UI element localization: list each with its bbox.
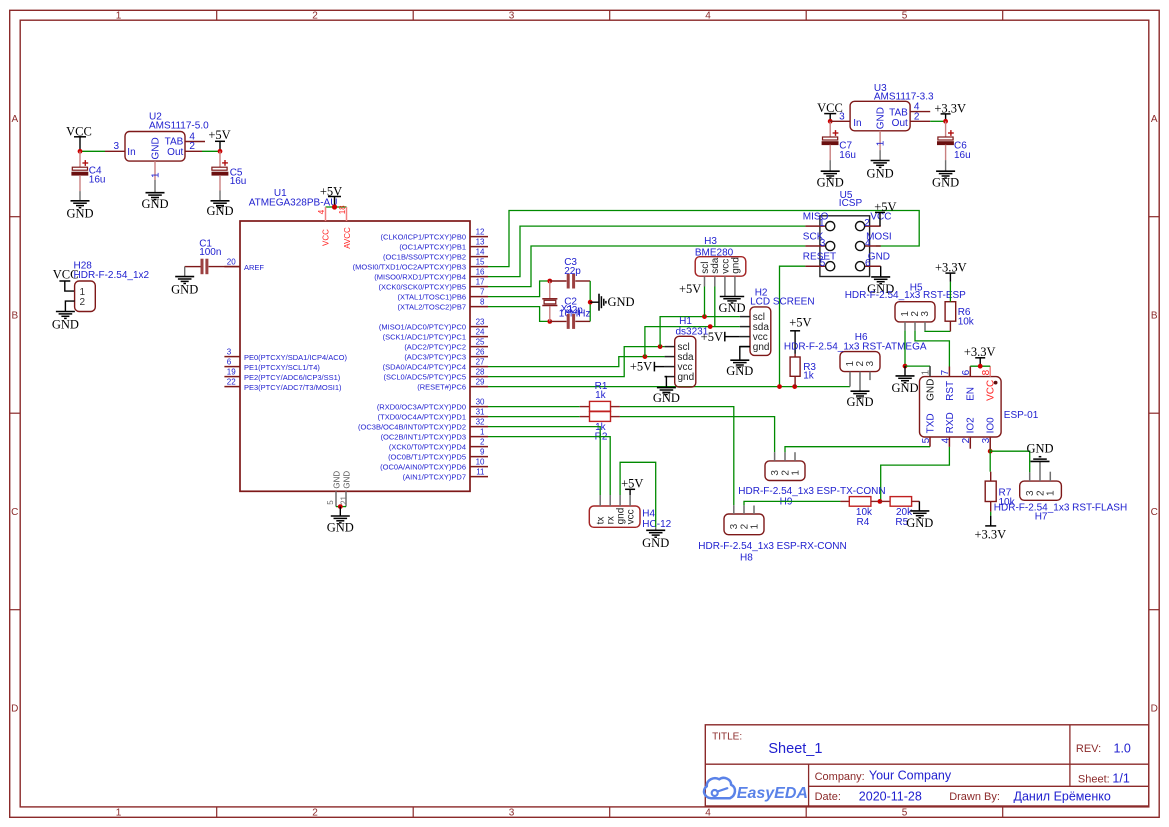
svg-text:32: 32 (476, 418, 485, 427)
svg-text:+3.3V: +3.3V (964, 345, 996, 359)
svg-text:AMS1117-3.3: AMS1117-3.3 (874, 92, 934, 103)
resistor R3 1k (794, 354, 796, 357)
svg-text:C: C (11, 507, 18, 518)
svg-text:6: 6 (961, 369, 972, 375)
svg-text:BME280: BME280 (695, 247, 734, 258)
pin 3 (H7) (1029, 472, 1031, 481)
svg-text:(OC1B/SS0/PTCXY)PB2: (OC1B/SS0/PTCXY)PB2 (383, 253, 466, 262)
svg-text:(OC2B/INT1/PTCXY)PD3: (OC2B/INT1/PTCXY)PD3 (381, 433, 466, 442)
module H4 HC-12 body (589, 506, 640, 527)
node junction U1 ground (338, 504, 343, 509)
svg-text:+5V: +5V (621, 476, 643, 490)
svg-text:(ADC2/PTCY)PC2: (ADC2/PTCY)PC2 (404, 343, 466, 352)
svg-text:GND: GND (906, 516, 933, 530)
svg-text:2: 2 (80, 297, 86, 308)
svg-text:H3: H3 (704, 236, 717, 247)
svg-text:Out: Out (167, 147, 183, 158)
svg-text:6: 6 (865, 258, 871, 269)
pin 7 (ESP.RST) (948, 367, 950, 377)
svg-text:3: 3 (509, 11, 515, 22)
svg-text:19: 19 (227, 368, 236, 377)
svg-text:GND: GND (171, 282, 198, 296)
pin sda (H1) (665, 356, 675, 358)
wire RESET# (PC6) long line (488, 386, 850, 388)
pin 20 (U1.AREF) (224, 266, 240, 268)
svg-text:1: 1 (151, 172, 162, 178)
ground GND (U3 pin1) (879, 150, 881, 160)
svg-text:VCC: VCC (322, 229, 331, 246)
svg-text:1: 1 (1046, 490, 1057, 496)
svg-text:Sheet_1: Sheet_1 (768, 741, 822, 757)
svg-text:Out: Out (892, 118, 908, 129)
svg-text:25: 25 (476, 338, 485, 347)
pin 32 (U1.PD2) (470, 426, 488, 428)
resistor R6 10k (949, 321, 951, 331)
pin 27 (U1.PC4) (470, 366, 488, 368)
pin 4 (ESP.RXD) (948, 437, 950, 447)
ground GND (C4) (79, 191, 81, 201)
wire SCK (PB5 to ICSP pin3) (488, 246, 805, 287)
svg-text:A: A (11, 114, 18, 125)
wire RESET (ICSP pin5 riser) (780, 266, 806, 386)
pin 3 (ESP.IO0) (989, 437, 991, 449)
svg-text:12: 12 (476, 228, 485, 237)
svg-text:16u: 16u (230, 176, 247, 187)
node junction VCC/C7 (828, 119, 833, 124)
svg-text:7: 7 (940, 369, 951, 375)
svg-text:+5V: +5V (630, 360, 652, 374)
pin 2 (U1.PD4) (470, 446, 488, 448)
svg-text:3: 3 (509, 807, 515, 818)
wire VCC to U2.In (80, 150, 105, 152)
node junction RESET at R3 (792, 384, 797, 389)
connector H28 HDR-F-2.54_1x2 (75, 281, 96, 312)
node junction H5/ESP ground (903, 364, 908, 369)
wire RXD0 (PD0 to R1) (488, 406, 580, 408)
svg-text:HDR-F-2.54_1x2: HDR-F-2.54_1x2 (74, 270, 150, 281)
pin 16 (U1.PB4) (470, 276, 488, 278)
svg-text:21: 21 (339, 495, 348, 504)
wire BME280 sda down (714, 287, 716, 327)
frame column ticks (216, 10, 218, 20)
svg-text:GND: GND (876, 107, 887, 129)
svg-text:10k: 10k (958, 317, 975, 328)
op-amp U2 regulator AMS1117-5.0 (125, 132, 185, 162)
ground GND (C1) (184, 267, 186, 277)
pin 2 (H6) (859, 372, 861, 391)
svg-text:(RESET#)PC6: (RESET#)PC6 (417, 383, 466, 392)
svg-text:GND: GND (52, 317, 79, 331)
pin 22 (U1.PE3) (224, 386, 240, 388)
wire H5 pin1 to GND junction (904, 331, 906, 367)
pin 3 (H8) (733, 505, 735, 514)
wire H2 gnd to ground (740, 347, 750, 361)
ground GND (ICSP pin6) (880, 266, 882, 277)
node junction divider (878, 499, 883, 504)
svg-text:(SCK1/ADC1/PTCY)PC1: (SCK1/ADC1/PTCY)PC1 (383, 333, 466, 342)
wire SDA riser to BME280/LCD (645, 327, 740, 357)
ground GND (H1) (657, 387, 676, 389)
svg-text:ATMEGA328PB-AU: ATMEGA328PB-AU (249, 198, 338, 209)
pin 31 (U1.PD1) (470, 416, 488, 418)
wire IO0 to R7 (989, 449, 991, 472)
svg-text:HDR-F-2.54_1x3 RST-ESP: HDR-F-2.54_1x3 RST-ESP (845, 290, 966, 301)
svg-text:31: 31 (476, 408, 485, 417)
svg-text:3: 3 (839, 112, 845, 123)
title block dividers (705, 763, 1149, 765)
module ESP-01 body (920, 377, 1002, 437)
pin 1 (H7) (1049, 472, 1051, 481)
wire BME280 scl down (704, 287, 706, 317)
svg-text:(XCK0/T0/PTCXY)PD4: (XCK0/T0/PTCXY)PD4 (389, 443, 466, 452)
svg-text:H4: H4 (642, 509, 655, 520)
svg-text:Drawn By:: Drawn By: (949, 791, 1000, 803)
svg-text:HC-12: HC-12 (642, 519, 671, 530)
svg-text:1: 1 (790, 470, 801, 476)
svg-text:2: 2 (914, 112, 920, 123)
svg-text:PE3(PTCY/ADC7/T3/MOSI1): PE3(PTCY/ADC7/T3/MOSI1) (244, 383, 342, 392)
ground GND (C6) (945, 160, 947, 171)
wire H9 pin2 to ESP TXD (785, 447, 930, 453)
wire junction to ESP GND pin (905, 365, 930, 367)
node junction crystal ground (588, 300, 593, 305)
svg-text:PE0(PTCXY/SDA1/ICP4/ACO): PE0(PTCXY/SDA1/ICP4/ACO) (244, 353, 347, 362)
svg-text:GND: GND (925, 379, 936, 401)
pin sda (BME280) (714, 276, 716, 286)
connector H9 HDR-F-2.54_1x3 ESP-TX-CONN body (765, 461, 805, 481)
svg-text:1k: 1k (595, 390, 607, 401)
svg-text:AVCC: AVCC (343, 227, 352, 249)
svg-text:(MISO0/RXD1/PTCXY)PB4: (MISO0/RXD1/PTCXY)PB4 (374, 273, 466, 282)
svg-text:H1: H1 (679, 316, 692, 327)
pin 8 (U1.PB7) (470, 306, 488, 308)
pin 3 (H9) (774, 452, 776, 461)
wire H1 gnd to ground (665, 377, 667, 388)
ground GND (H28) (56, 311, 75, 313)
svg-text:GND: GND (726, 364, 753, 378)
svg-text:HDR-F-2.54_1x3 RST-FLASH: HDR-F-2.54_1x3 RST-FLASH (994, 503, 1127, 514)
wire H5 pin3 to R6 (925, 330, 950, 333)
IC U1 ATMEGA328PB-AU body (240, 221, 470, 491)
wire crystal caps right side (589, 281, 591, 321)
node junction SDA at BME280 (708, 324, 713, 329)
svg-text:TAB: TAB (165, 137, 184, 148)
svg-text:B: B (11, 311, 18, 322)
svg-text:(XTAL2/TOSC2)PB7: (XTAL2/TOSC2)PB7 (398, 303, 467, 312)
pin gnd (H2) (740, 346, 750, 348)
pin 1 (H9) (794, 452, 796, 461)
svg-text:3: 3 (820, 238, 826, 249)
svg-text:28: 28 (476, 368, 485, 377)
svg-text:GND: GND (1026, 442, 1053, 456)
svg-text:8: 8 (480, 298, 485, 307)
svg-text:EN: EN (966, 387, 977, 401)
svg-text:AMS1117-5.0: AMS1117-5.0 (149, 121, 209, 132)
svg-text:A: A (1151, 114, 1158, 125)
wire SCL (PC5 to bus) (488, 347, 665, 377)
svg-text:IO2: IO2 (966, 417, 977, 434)
capacitor C7 (829, 121, 831, 137)
svg-text:22p: 22p (564, 266, 581, 277)
svg-text:3: 3 (981, 437, 992, 443)
svg-text:3: 3 (920, 311, 931, 317)
svg-text:(SDA0/ADC4/PTCY)PC4: (SDA0/ADC4/PTCY)PC4 (383, 363, 466, 372)
node junction ESP IO0 (988, 449, 993, 454)
pin vcc (H2) (740, 336, 750, 338)
wire PD3 to HC-12 rx (488, 437, 610, 495)
pin 23 (U1.PC0) (470, 326, 488, 328)
net flag +3.3V (R7, inverted) (990, 512, 992, 516)
svg-text:9: 9 (480, 448, 485, 457)
pin 2 (H8) (743, 505, 745, 514)
svg-text:1: 1 (819, 218, 825, 229)
svg-text:GND: GND (342, 471, 351, 489)
pin 2 (H7) (1039, 461, 1041, 481)
svg-text:GND: GND (608, 295, 635, 309)
svg-text:(SCL0/ADC5/PTCY)PC5: (SCL0/ADC5/PTCY)PC5 (383, 373, 466, 382)
svg-text:(OC0B/T1/PTCXY)PD5: (OC0B/T1/PTCXY)PD5 (388, 453, 466, 462)
svg-text:16u: 16u (89, 175, 106, 186)
pin 1 (ICSP.MISO) (805, 225, 825, 227)
svg-text:H9: H9 (780, 497, 793, 508)
pin 3 (U3.In) (830, 120, 850, 122)
ground GND (C7) (829, 160, 831, 171)
svg-text:GND: GND (642, 536, 669, 550)
ground GND (H2) (730, 359, 749, 361)
svg-text:PE1(PTCXY/SCL1/T4): PE1(PTCXY/SCL1/T4) (244, 363, 320, 372)
svg-text:ESP-01: ESP-01 (1004, 410, 1039, 421)
svg-text:1: 1 (116, 807, 122, 818)
svg-text:5: 5 (820, 258, 826, 269)
pin 18 (U1.AVCC) (346, 207, 348, 221)
wire R2 to H9 pin3 (620, 417, 775, 453)
svg-text:4: 4 (705, 11, 711, 22)
node junction VCC/C4 (78, 149, 83, 154)
node junction crystal bottom (547, 319, 552, 324)
node junction crystal top (547, 279, 552, 284)
pin 3 (U2.In) (105, 150, 125, 152)
wire EN/VCC to +3.3V (970, 365, 990, 367)
ground GND (BME280) (720, 296, 744, 298)
pin 1 (U2.GND) (154, 161, 156, 180)
pin 4 (ICSP.MOSI) (865, 245, 881, 247)
pin 6 (U1.PE1) (224, 366, 240, 368)
svg-text:Sheet:: Sheet: (1078, 773, 1110, 785)
wire U2.Out to +5V (202, 150, 220, 152)
pin sda (H2) (740, 326, 750, 328)
svg-text:D: D (11, 703, 18, 714)
svg-text:29: 29 (476, 378, 485, 387)
svg-text:+5V: +5V (701, 330, 723, 344)
capacitor C2 22p (550, 320, 567, 322)
pin 1 (H8) (753, 506, 755, 515)
wire H5 pin2 to ESP RST (915, 331, 949, 367)
svg-text:18: 18 (338, 205, 347, 214)
svg-text:3: 3 (770, 470, 781, 476)
pin gnd (H1) (665, 376, 675, 378)
svg-text:Данил Ерёменко: Данил Ерёменко (1014, 789, 1111, 803)
svg-text:LCD SCREEN: LCD SCREEN (750, 297, 814, 308)
svg-text:C: C (1151, 507, 1158, 518)
pin vcc (H1) (665, 366, 675, 368)
capacitor C4 (79, 151, 81, 167)
svg-text:5: 5 (902, 11, 908, 22)
pin 7 (U1.PB6) (470, 296, 488, 298)
pin 2 (ESP.IO2) (969, 437, 971, 449)
svg-text:Your Company: Your Company (869, 769, 952, 783)
wire U1 ground pins (336, 506, 346, 508)
wire VCC to H28 pin1 (65, 281, 75, 291)
svg-text:2: 2 (864, 218, 870, 229)
connector H6 HDR-F-2.54_1x3 RST-ATMEGA body (840, 352, 880, 372)
svg-text:TAB: TAB (889, 107, 908, 118)
pin 1 (H5) (904, 322, 906, 331)
pin 1 (U1.PD3) (470, 436, 488, 438)
svg-text:GND: GND (653, 391, 680, 405)
svg-text:2: 2 (480, 438, 485, 447)
svg-text:gnd: gnd (730, 257, 741, 274)
svg-text:GND: GND (868, 252, 890, 263)
svg-text:GND: GND (891, 381, 918, 395)
pin 21 (U1.GND) (345, 491, 347, 506)
svg-text:IO0: IO0 (986, 417, 997, 434)
svg-text:GND: GND (151, 137, 162, 159)
pin 30 (U1.PD0) (470, 406, 488, 408)
svg-text:3: 3 (113, 141, 119, 152)
svg-text:1/1: 1/1 (1112, 771, 1129, 785)
pin 1 (ESP.GND) (929, 366, 931, 377)
pin 3 (ICSP.SCK) (805, 245, 825, 247)
wire U3.Out to +3.3V (930, 120, 945, 122)
svg-text:H7: H7 (1035, 511, 1048, 522)
wire MOSI (PB3 to ICSP pin4) (488, 211, 919, 267)
pin 11 (U1.PD7) (470, 476, 488, 478)
svg-text:GND: GND (141, 197, 168, 211)
pin 5 (ICSP.RESET) (805, 265, 825, 267)
svg-text:MISO: MISO (803, 211, 829, 222)
svg-text:HDR-F-2.54_1x3 ESP-TX-CONN: HDR-F-2.54_1x3 ESP-TX-CONN (738, 486, 885, 497)
svg-text:3: 3 (227, 348, 232, 357)
ground GND (HC-12) (655, 527, 657, 530)
svg-text:+5V: +5V (789, 315, 811, 329)
svg-text:(TXD0/OC4A/PTCXY)PD1: (TXD0/OC4A/PTCXY)PD1 (378, 413, 466, 422)
svg-text:H8: H8 (740, 552, 753, 563)
wire +5V to VCC/AVCC pins (326, 206, 347, 208)
regulator U3 AMS1117-3.3 body (850, 101, 910, 131)
svg-text:+5V: +5V (679, 282, 701, 296)
wire TXD0 (PD1 to R2) (488, 416, 580, 418)
svg-text:RXD: RXD (945, 412, 956, 433)
svg-text:GND: GND (817, 175, 844, 189)
pin 2 (U2.Out) (185, 150, 202, 152)
svg-text:15: 15 (476, 258, 485, 267)
svg-text:7: 7 (480, 288, 485, 297)
pin 29 (U1.PC6) (470, 386, 488, 388)
wire SCL riser to BME280/LCD (660, 317, 740, 347)
pin 3 (H5) (924, 322, 926, 331)
resistor R7 10k (990, 472, 992, 481)
svg-text:GND: GND (718, 301, 745, 315)
svg-text:(MISO1/ADC0/PTCY)PC0: (MISO1/ADC0/PTCY)PC0 (379, 323, 466, 332)
svg-text:EasyEDA: EasyEDA (737, 785, 808, 802)
svg-text:24: 24 (476, 328, 485, 337)
node junction +3.3V/C6 (943, 119, 948, 124)
node junction SCL at BME280 (702, 314, 707, 319)
pin 8 (ESP.VCC) (989, 366, 991, 376)
svg-text:TXD: TXD (925, 413, 936, 433)
svg-text:23: 23 (476, 318, 485, 327)
svg-text:AREF: AREF (244, 263, 264, 272)
svg-text:(RXD0/OC3A/PTCXY)PD0: (RXD0/OC3A/PTCXY)PD0 (377, 403, 466, 412)
svg-text:R4: R4 (857, 517, 870, 528)
svg-text:1: 1 (749, 523, 760, 529)
pin 5 (ESP.TXD) (929, 437, 931, 447)
wire IO0 to H7 pin3 (990, 451, 1029, 472)
svg-text:11: 11 (476, 468, 485, 477)
svg-text:5: 5 (902, 807, 908, 818)
pin scl (H2) (740, 316, 750, 318)
wire R1 to H8 pin3 (620, 407, 734, 506)
ground GND (H5 pin1) (904, 366, 906, 376)
wire H8 pin2 to R4 (744, 501, 840, 505)
svg-text:(OC0A/AIN0/PTCXY)PD6: (OC0A/AIN0/PTCXY)PD6 (380, 463, 466, 472)
svg-text:1: 1 (876, 140, 887, 146)
svg-text:In: In (127, 147, 135, 158)
wire PD2 to HC-12 tx (488, 427, 600, 495)
svg-text:1: 1 (480, 428, 485, 437)
svg-text:+5V: +5V (208, 128, 230, 142)
svg-text:8: 8 (981, 369, 992, 375)
capacitor C5 (219, 151, 221, 167)
svg-text:(XTAL1/TOSC1)PB6: (XTAL1/TOSC1)PB6 (398, 293, 467, 302)
title block outline (705, 725, 1149, 806)
wire MISO (PB4 to ICSP pin1) (488, 226, 805, 277)
pin 25 (U1.PC2) (470, 346, 488, 348)
connector H8 HDR-F-2.54_1x3 ESP-RX-CONN body (724, 514, 764, 535)
svg-text:1: 1 (116, 11, 122, 22)
pin tx (HC-12) (599, 495, 601, 506)
ground GND (R5) (918, 501, 920, 511)
svg-text:D: D (1151, 703, 1158, 714)
svg-text:3: 3 (865, 361, 876, 367)
svg-text:(ADC3/PTCY)PC3: (ADC3/PTCY)PC3 (404, 353, 466, 362)
capacitor C3 22p (550, 280, 567, 282)
svg-text:16: 16 (476, 268, 485, 277)
EasyEDA logo (704, 778, 735, 798)
svg-text:Date:: Date: (815, 791, 841, 803)
pin vcc (HC-12) (629, 495, 631, 506)
wire SDA (PC4 to bus) (488, 357, 665, 367)
connector U5 ICSP body (820, 216, 870, 277)
svg-text:5: 5 (326, 500, 335, 505)
wire ESP RXD to divider (881, 447, 950, 502)
node junction +5V/C5 (218, 149, 223, 154)
svg-text:5: 5 (921, 437, 932, 443)
svg-text:GND: GND (206, 204, 233, 218)
svg-text:4: 4 (865, 238, 871, 249)
pin 4 (U3.TAB) (910, 111, 930, 113)
sensor H3 BME280 body (695, 257, 746, 277)
svg-text:(XCK0/SCK0/PTCXY)PB5: (XCK0/SCK0/PTCXY)PB5 (378, 283, 466, 292)
svg-text:1.0: 1.0 (1114, 742, 1131, 756)
ground GND (U2 pin1) (154, 180, 156, 193)
crystal X1 16MHz (549, 281, 551, 298)
svg-text:GND: GND (932, 175, 959, 189)
svg-text:(OC1A/PTCXY)PB1: (OC1A/PTCXY)PB1 (399, 243, 466, 252)
svg-text:27: 27 (476, 358, 485, 367)
svg-text:4: 4 (940, 437, 951, 443)
svg-text:16u: 16u (839, 150, 856, 161)
